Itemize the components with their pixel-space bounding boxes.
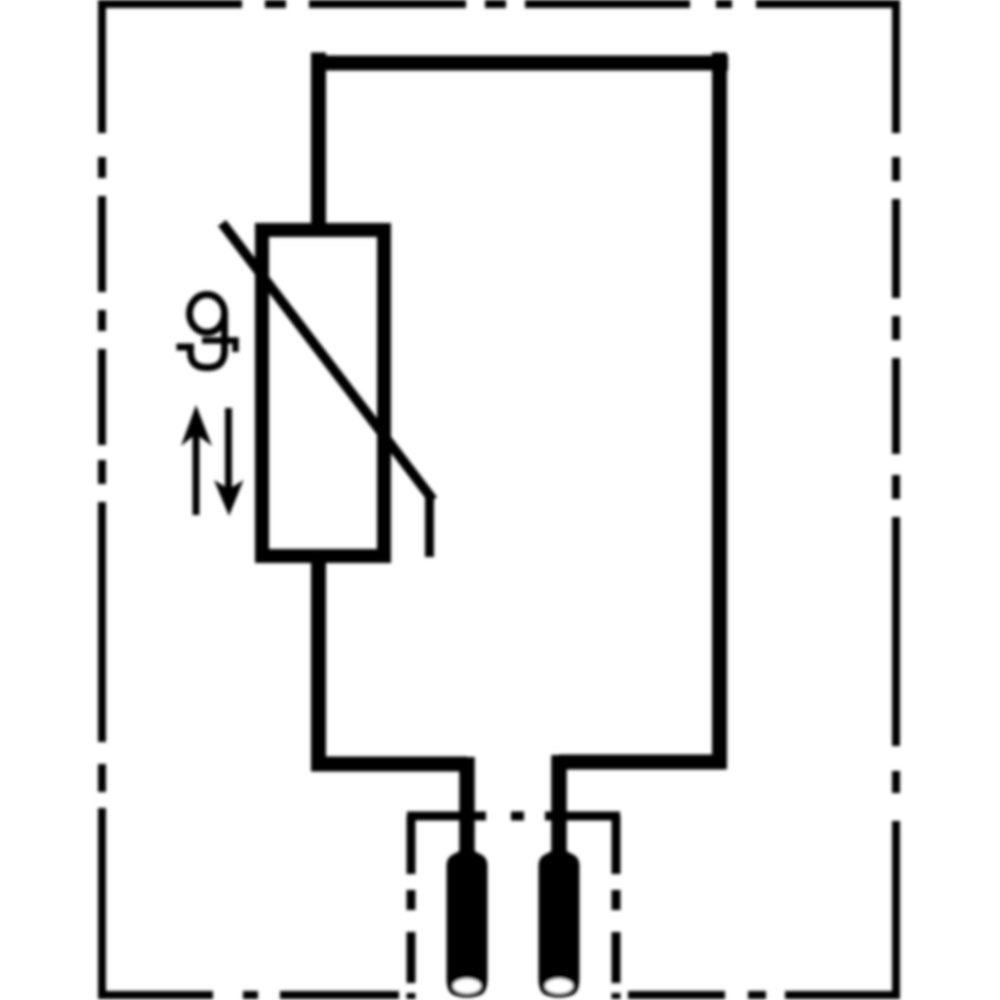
pin 1 (left terminal) bbox=[447, 851, 488, 998]
enclosure boundary left edge (dash-dot) bbox=[98, 0, 106, 999]
enclosure boundary top edge (dash-dot) bbox=[98, 0, 900, 8]
wire W2: top rail bbox=[311, 56, 728, 71]
connector box left edge (dash-dot) bbox=[407, 816, 416, 999]
arrow down (resistance decrease) bbox=[225, 408, 232, 490]
wire W8: drop to pin 1 bbox=[459, 757, 475, 862]
wire W6: thermistor bottom to bottom rail bbox=[311, 549, 326, 771]
thermistor RT1 diagonal tail bbox=[425, 494, 434, 557]
thermistor RT1 body bbox=[262, 230, 384, 556]
wire W3: right vertical rail bbox=[712, 53, 727, 770]
enclosure boundary right edge (dash-dot) bbox=[892, 0, 900, 999]
temperature symbol (theta) bbox=[177, 295, 236, 368]
enclosure boundary bottom edge (dash-dot) bbox=[98, 991, 900, 999]
wire W5: drop to pin 2 bbox=[551, 755, 567, 862]
connector box right edge (dash-dot) bbox=[612, 816, 621, 999]
wire W1: thermistor top to top rail bbox=[311, 53, 326, 238]
arrow up (resistance increase) bbox=[193, 430, 200, 515]
wire W7: bottom-left horizontal bbox=[311, 757, 467, 772]
pin 2 (right terminal) bbox=[539, 851, 580, 998]
connector box top edge (dash-dot) bbox=[407, 812, 620, 821]
wire W4: bottom-right horizontal bbox=[559, 755, 726, 770]
thermistor RT1 diagonal stroke bbox=[222, 223, 433, 500]
